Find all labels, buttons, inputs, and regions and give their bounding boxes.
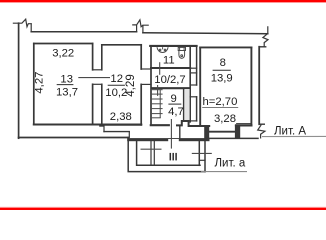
- svg-text:12: 12: [110, 73, 123, 85]
- top wall middle break: [132, 20, 149, 33]
- svg-text:4,29: 4,29: [124, 74, 137, 97]
- room 12: [102, 45, 141, 125]
- building bottom thick bars (porch top): [127, 138, 168, 141]
- door line room 11: [159, 62, 161, 75]
- room 8: [200, 47, 251, 125]
- red bottom border: [0, 206, 326, 209]
- bottom walls of rooms 9 and 8: [151, 121, 258, 139]
- right cut wall bracket: [259, 46, 266, 48]
- wall 10|9: [151, 87, 190, 89]
- svg-text:9: 9: [171, 93, 177, 105]
- svg-text:13: 13: [60, 73, 73, 85]
- svg-text:2,38: 2,38: [110, 111, 132, 123]
- svg-text:Лит. А: Лит. А: [274, 125, 306, 137]
- outer left wall: [18, 23, 20, 138]
- III marker: [170, 153, 176, 161]
- svg-text:8: 8: [220, 57, 226, 69]
- svg-text:10/2,7: 10/2,7: [154, 74, 185, 86]
- bottom-right wall break: [258, 124, 265, 138]
- room 9 right wall + grey fill: [185, 89, 190, 122]
- outer bottom line: [19, 137, 129, 139]
- svg-text:Лит. а: Лит. а: [215, 157, 246, 169]
- red top border: [0, 0, 326, 2]
- svg-text:13,9: 13,9: [211, 73, 233, 85]
- building bottom wall: [19, 125, 142, 138]
- room 11 (wc) top wall: [150, 46, 196, 122]
- porch (Лит. а): [128, 138, 205, 172]
- porch door sills: [141, 148, 162, 150]
- svg-text:4,27: 4,27: [34, 72, 46, 94]
- partition 12|strip: [141, 46, 151, 125]
- room 13: [34, 44, 93, 125]
- svg-text:3,28: 3,28: [214, 113, 236, 125]
- svg-text:h=2,70: h=2,70: [203, 96, 238, 108]
- svg-text:11: 11: [163, 54, 175, 66]
- svg-text:13,7: 13,7: [56, 86, 78, 98]
- leader underlines: [262, 135, 326, 137]
- svg-text:4,7: 4,7: [168, 106, 184, 118]
- door jamb right of porch door: [179, 125, 181, 138]
- partition 13|12: [93, 45, 102, 125]
- toilet: [178, 47, 185, 58]
- step below room 12: [103, 126, 105, 132]
- entrance step below room 8: [204, 125, 209, 139]
- porch door line: [170, 119, 172, 149]
- top wall right segment: [143, 33, 268, 34]
- inner bottom line (room bottoms 13,12): [34, 124, 141, 126]
- fraction bars: [57, 70, 231, 104]
- top-left wall break: [13, 19, 32, 32]
- stairs: [152, 89, 163, 117]
- top wall left segment: [31, 31, 136, 33]
- threshold thin line across porch door: [168, 138, 179, 140]
- door line room 10: [157, 85, 159, 96]
- top-right wall break: [263, 27, 268, 47]
- svg-text:3,22: 3,22: [52, 48, 74, 60]
- sink: [157, 47, 168, 52]
- vent band: [190, 46, 196, 121]
- leader line room 12: [78, 77, 110, 79]
